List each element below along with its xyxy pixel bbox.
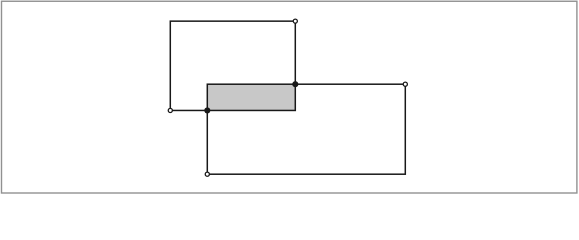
vertex circle (B top-right corner) — [403, 82, 407, 86]
overlap region (intersection of A and B, gray fill) — [207, 84, 295, 110]
intersection dot (A right edge crosses B top edge) — [292, 81, 298, 87]
vertex circle (A top-right corner) — [293, 19, 297, 23]
rectangle A (upper-left) — [170, 21, 295, 110]
intersection dot (B left edge crosses A bottom edge) — [204, 107, 210, 113]
vertex circle (B bottom-left corner) — [205, 172, 209, 176]
rectangle B (lower-right) — [207, 84, 405, 174]
vertex circle (A bottom-left corner) — [168, 108, 172, 112]
